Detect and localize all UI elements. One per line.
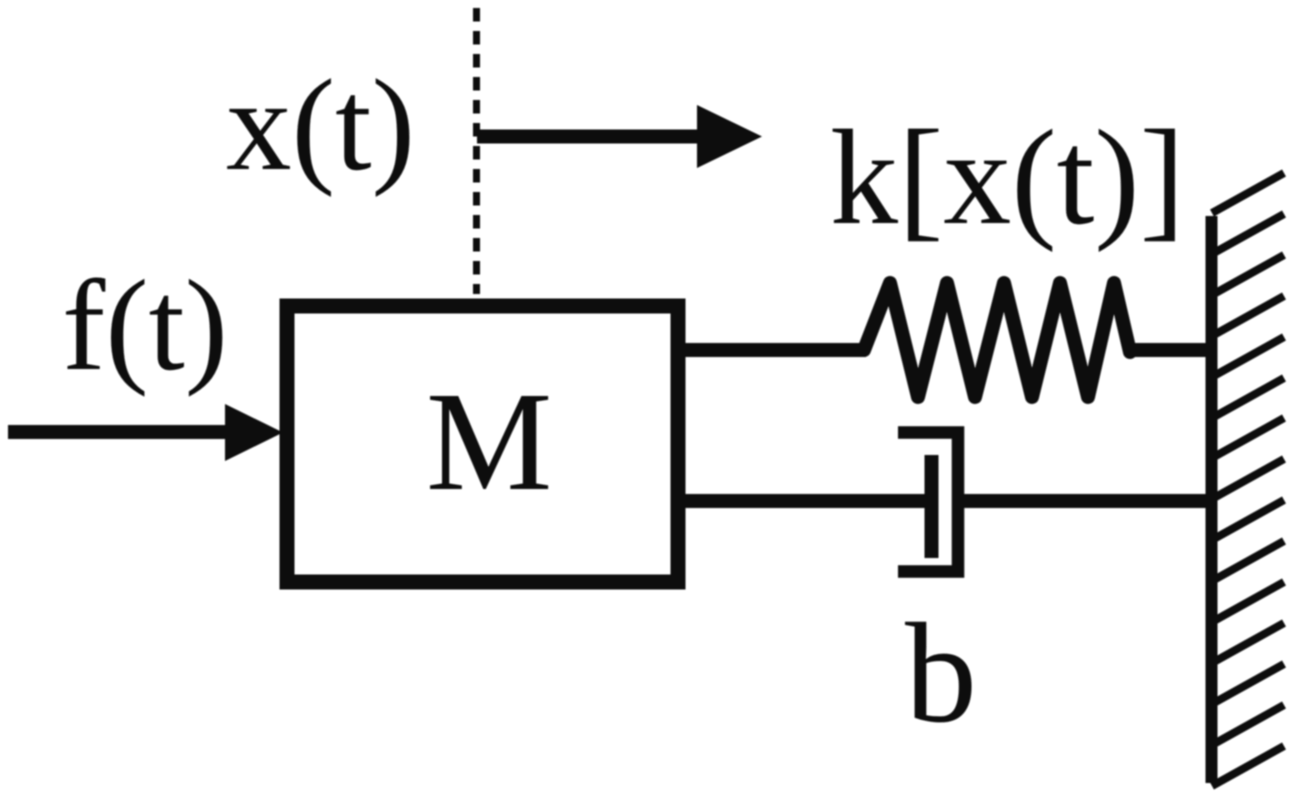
svg-text:M: M — [426, 362, 552, 520]
force arrow f(t) shaft — [8, 425, 232, 439]
displacement arrow x(t) shaft — [477, 130, 706, 144]
spring k zigzag — [864, 283, 1130, 397]
wire: spring to wall — [1128, 343, 1210, 357]
mass M box — [287, 306, 678, 582]
force arrow f(t) head — [225, 404, 283, 461]
wire: mass to spring — [678, 343, 866, 357]
wall line — [1206, 216, 1218, 783]
node: dashed reference line for x(t) — [473, 8, 480, 294]
svg-text:f(t): f(t) — [62, 254, 228, 398]
damper cylinder — [898, 433, 958, 572]
displacement arrow x(t) head — [697, 105, 762, 168]
wire: mass to damper piston — [678, 494, 931, 508]
svg-text:k[x(t)]: k[x(t)] — [830, 103, 1185, 253]
svg-text:x(t): x(t) — [226, 53, 415, 198]
svg-text:b: b — [905, 594, 977, 752]
wall hatching — [1212, 173, 1284, 786]
damper piston — [925, 455, 939, 558]
wire: damper to wall — [958, 494, 1210, 508]
